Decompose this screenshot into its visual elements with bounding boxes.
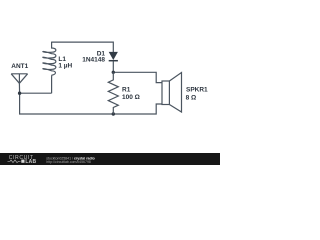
node junction: antenna/coil/ground <box>18 92 21 95</box>
antenna ANT1 <box>11 74 27 93</box>
wire: bottom ground rail <box>20 93 162 114</box>
node junction: resistor bottom/rail <box>112 112 115 115</box>
svg-text:1N4148: 1N4148 <box>82 57 105 64</box>
wire top: coil top to diode top <box>52 42 114 52</box>
svg-text:SPKR1: SPKR1 <box>186 86 208 93</box>
bottom attribution bar <box>0 153 220 165</box>
svg-text:R1: R1 <box>122 87 131 94</box>
svg-text:ANT1: ANT1 <box>11 63 28 70</box>
CircuitLab logo: zigzag <box>8 160 21 163</box>
svg-text:http://circuitlab.com/c456798: http://circuitlab.com/c456798 <box>46 160 91 164</box>
wire: antenna junction to coil bottom <box>20 92 52 94</box>
svg-text:LAB: LAB <box>25 159 36 165</box>
diode D1 <box>109 52 118 61</box>
speaker SPKR1 <box>162 73 182 113</box>
CircuitLab logo: square mark <box>21 160 24 163</box>
node junction: diode/resistor/speaker <box>112 71 115 74</box>
wire: junction to speaker top lead <box>113 72 162 82</box>
resistor R1 <box>108 72 118 114</box>
svg-text:1 µH: 1 µH <box>58 62 72 69</box>
wire: diode bottom to junction <box>112 61 114 72</box>
svg-text:100 Ω: 100 Ω <box>122 94 140 101</box>
svg-text:8 Ω: 8 Ω <box>186 94 197 101</box>
inductor L1 <box>43 42 56 94</box>
